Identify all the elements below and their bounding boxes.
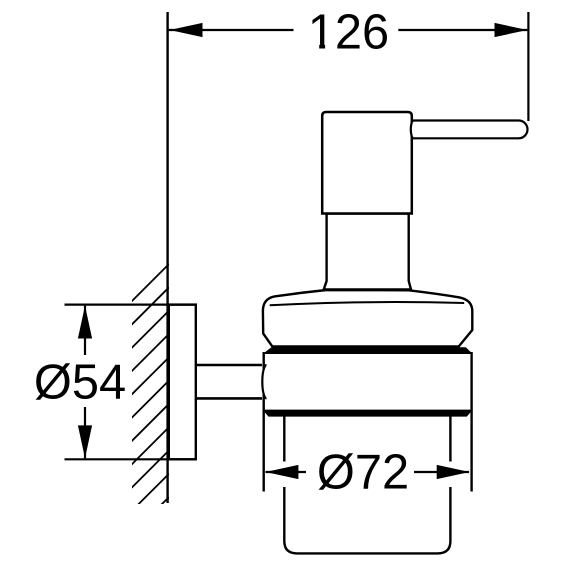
dimension Ø54 extension line bottom: [65, 458, 197, 460]
holder ring bottom bar: [263, 410, 473, 417]
arrowhead Ø72 right: [437, 465, 470, 479]
holder ring top band: [263, 347, 473, 354]
arrowhead 126 right: [495, 23, 528, 37]
dimension Ø72 line right segment: [414, 471, 469, 473]
holder ring left wall: [263, 352, 265, 492]
dimension 126 line left segment: [169, 29, 294, 31]
dimension Ø54 line top segment: [84, 306, 86, 355]
svg-text:Ø72: Ø72: [317, 445, 409, 499]
dimension Ø72 line left segment: [266, 471, 307, 473]
arrowhead Ø54 top: [78, 306, 92, 339]
holder arm joint cap: [262, 365, 266, 398]
pump neck: [324, 214, 411, 290]
glass cup bottom: [284, 487, 450, 553]
svg-text:Ø54: Ø54: [34, 356, 126, 410]
glass cup: [284, 417, 450, 462]
dimension 126 line right segment: [398, 29, 527, 31]
arrowhead 126 left: [170, 23, 203, 37]
holder arm: [196, 365, 262, 398]
dimension Ø54 extension line top: [65, 304, 197, 306]
pump lever: [411, 121, 528, 139]
bottle cap inner line: [270, 302, 465, 305]
bottle cap: [263, 290, 472, 346]
svg-text:126: 126: [308, 5, 389, 59]
pump head: [322, 112, 412, 214]
wall hatching: [130, 264, 169, 536]
holder ring right wall: [470, 352, 472, 492]
dimension 126 extension line right: [527, 12, 529, 121]
arrowhead Ø72 left: [266, 465, 299, 479]
escutcheon wall plate: [169, 305, 196, 460]
wall line: [166, 12, 168, 503]
dimension Ø54 line bottom segment: [84, 407, 86, 458]
arrowhead Ø54 bottom: [78, 425, 92, 458]
